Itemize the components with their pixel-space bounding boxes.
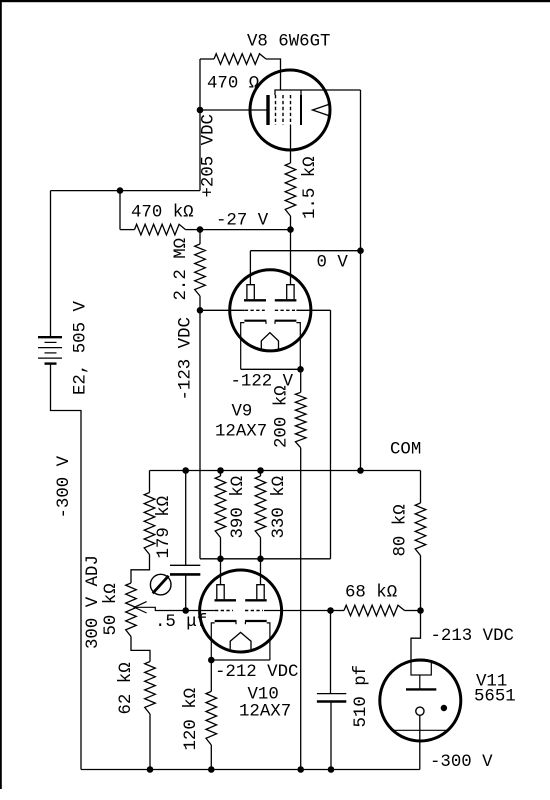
resistor 390 kOhm (220, 471, 222, 477)
wire battery top lead up to +205 rail (50, 191, 52, 338)
border frame top edge (0, 0, 550, 2)
svg-text:COM: COM (390, 441, 421, 460)
wire left column down to V10 plate line (199, 310, 201, 559)
svg-text:470 Ω: 470 Ω (207, 75, 259, 94)
wire V11 anode lead (411, 611, 421, 662)
V11 base chord (392, 729, 449, 731)
V9 left cathode (241, 323, 245, 370)
capacitor .5 uf (185, 471, 187, 566)
svg-text:+205 VDC: +205 VDC (200, 114, 219, 198)
wire -27V horizontal (200, 229, 291, 231)
wire +205 rail horizontal (51, 190, 201, 192)
V10 left cathode (211, 623, 214, 660)
wire V9 cathode join (241, 368, 301, 370)
node junction 0V (357, 247, 364, 254)
tube V10 12AX7 envelope (200, 570, 282, 652)
node junction rail/120k (208, 766, 215, 773)
svg-text:-212 VDC: -212 VDC (215, 663, 299, 682)
V11 anode bar (419, 675, 421, 689)
node junction V10 cathodes / 120k (208, 657, 215, 664)
svg-text:-27 V: -27 V (216, 212, 269, 231)
svg-text:179 kΩ: 179 kΩ (155, 496, 174, 559)
wire pot bottom jog (131, 637, 150, 662)
svg-text:330 kΩ: 330 kΩ (270, 476, 289, 539)
battery E2, 505 V (38, 336, 62, 338)
svg-text:1.5 kΩ: 1.5 kΩ (301, 156, 320, 219)
svg-text:510 pf: 510 pf (352, 665, 371, 728)
wire V9 grid feedback down (330, 310, 332, 559)
potentiometer 50 kOhm 300 V ADJ (126, 583, 137, 637)
V9 left plate (249, 251, 251, 285)
resistor 330 kOhm (260, 471, 262, 477)
svg-text:E2, 505 V: E2, 505 V (72, 301, 91, 395)
wire battery bottom lead (51, 364, 82, 770)
V9 grid dashed line (200, 309, 245, 311)
V11 anode box (411, 661, 431, 675)
V9 right plate (287, 285, 294, 300)
svg-text:62 kΩ: 62 kΩ (117, 662, 136, 714)
node junction COM/390k (217, 467, 224, 474)
wire -300 V rail (81, 769, 420, 771)
node junction rail/62k (147, 766, 154, 773)
tube V11 5651 envelope (380, 660, 461, 741)
wire V9 right plate lead from -27V node (290, 230, 292, 285)
node junction V10 grid/.5uf/wiper (182, 607, 189, 614)
V10 grid dashed line (186, 610, 215, 612)
node junction COM/.5uf (182, 467, 189, 474)
node junction 1.5k / V9 plate (287, 226, 294, 233)
V8 cathode bar (300, 95, 302, 125)
svg-text:12AX7: 12AX7 (215, 423, 267, 442)
wire V8 bottom lead (290, 125, 292, 163)
trimmer screw symbol (150, 574, 171, 595)
node junction 68k/80k/V11 (417, 607, 424, 614)
wire 0V horizontal (250, 250, 360, 252)
capacitor 510 pf (330, 611, 332, 694)
svg-text:80 kΩ: 80 kΩ (392, 504, 411, 556)
resistor 68 kOhm (331, 610, 345, 612)
V8 heater filament (313, 99, 329, 122)
svg-text:-213 VDC: -213 VDC (431, 627, 515, 646)
V11 cathode circle (416, 707, 424, 715)
node junction V9 grid (197, 307, 204, 314)
V10 left plate (220, 559, 222, 585)
wire V11 cathode lead (419, 715, 421, 769)
tube V9 12AX7 envelope (230, 270, 311, 351)
resistor 62 kOhm (145, 662, 156, 715)
V8 plate bar (266, 95, 269, 125)
pot wiper arrow (134, 602, 146, 613)
svg-text:V9: V9 (232, 403, 253, 422)
wire V10 cathode join (211, 659, 270, 661)
V10 right cathode (267, 623, 270, 660)
wire COM rail (150, 470, 421, 472)
V8 grid dashed electrodes (275, 95, 277, 125)
wire 470k left drop (119, 191, 121, 230)
node junction V8 plate tap (197, 107, 204, 114)
node junction rail/510pf (328, 766, 335, 773)
svg-text:68 kΩ: 68 kΩ (345, 584, 397, 603)
V8 internal top bus (275, 90, 361, 95)
svg-text:12AX7: 12AX7 (239, 703, 291, 722)
V9 heater filament (261, 333, 278, 349)
resistor 200 kOhm (300, 369, 302, 392)
resistor 470 Ohm (200, 58, 214, 60)
resistor 179 kOhm (149, 471, 151, 493)
svg-text:200 kΩ: 200 kΩ (273, 385, 292, 448)
node junction COM/330k (257, 467, 264, 474)
resistor 470 kOhm (120, 229, 135, 231)
resistor 120 kOhm (210, 660, 212, 691)
node junction COM/0V column (357, 467, 364, 474)
wire V8 plate lead (200, 109, 267, 111)
node junction V10 grid/68k/510pf (327, 607, 334, 614)
svg-text:-123 VDC: -123 VDC (177, 317, 196, 401)
tube V8 6W6GT envelope (250, 70, 330, 150)
node junction V10 right plate (257, 556, 264, 563)
svg-text:470 kΩ: 470 kΩ (131, 204, 194, 223)
svg-text:0 V: 0 V (317, 254, 349, 273)
svg-text:2.2 MΩ: 2.2 MΩ (172, 238, 191, 301)
resistor 80 kOhm (420, 471, 422, 504)
V9 right cathode (296, 323, 300, 370)
node junction rail/200k (297, 766, 304, 773)
svg-text:390 kΩ: 390 kΩ (229, 476, 248, 539)
wire V10 plate line (200, 558, 331, 560)
border frame left edge (0, 0, 2, 789)
node junction V9 cathodes / 200k (297, 366, 304, 373)
wire V8 cathode to 0V column (360, 90, 362, 471)
svg-text:5651: 5651 (474, 688, 516, 707)
svg-text:-300 V: -300 V (430, 753, 493, 772)
node junction +205/470k (117, 187, 124, 194)
svg-text:300 V ADJ: 300 V ADJ (84, 555, 103, 649)
svg-text:50 kΩ: 50 kΩ (102, 583, 121, 635)
V10 heater filament (230, 632, 251, 649)
resistor 2.2 MOhm (199, 230, 201, 244)
wire x=200 up to 470 ohm (199, 59, 201, 191)
resistor 1.5 kOhm (285, 163, 296, 216)
svg-text:120 kΩ: 120 kΩ (182, 688, 201, 751)
V10 right plate (260, 559, 262, 585)
svg-text:V8 6W6GT: V8 6W6GT (247, 33, 331, 52)
node junction V10 left plate (217, 556, 224, 563)
svg-text:-300 V: -300 V (55, 455, 74, 518)
node junction -27V (197, 226, 204, 233)
V11 gas dot (441, 705, 447, 711)
